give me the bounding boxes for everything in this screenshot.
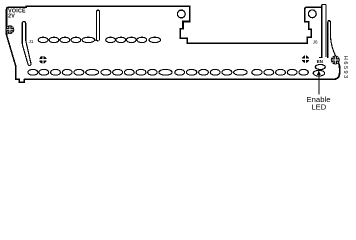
bolt top-left (hatched) [5, 25, 14, 34]
leader line [318, 74, 320, 94]
screw left (quad cross) [39, 55, 48, 64]
right edge curve behind bolt [330, 37, 335, 57]
right guide rails (tab with two legs) [322, 5, 326, 58]
bolt bottom-right (hatched) [331, 56, 340, 65]
svg-text:EN: EN [317, 59, 324, 64]
arrowhead [317, 71, 321, 75]
center latch slot foot [94, 39, 99, 41]
svg-text:J6: J6 [313, 40, 318, 45]
screw hole left slot [177, 10, 185, 18]
upper vent ovals row [38, 37, 160, 42]
lower vent ovals row [28, 69, 325, 76]
screw hole right slot [308, 10, 316, 18]
module top outline with slot cutout staircases [7, 6, 322, 43]
rail foot [319, 56, 323, 58]
screw right (quad cross) [301, 55, 310, 64]
right latch hook slot [328, 21, 331, 59]
center latch slot J-shape [97, 10, 100, 41]
svg-text:LED: LED [311, 102, 326, 111]
svg-text:2V: 2V [8, 14, 15, 20]
ejector lever (bent finger) left [22, 22, 31, 66]
enable LED oval [315, 65, 325, 70]
left slanted edge and bottom-left notch [7, 35, 25, 83]
bottom front edge [24, 63, 340, 80]
svg-text:J1: J1 [29, 39, 34, 44]
svg-text:H6593: H6593 [342, 56, 348, 80]
